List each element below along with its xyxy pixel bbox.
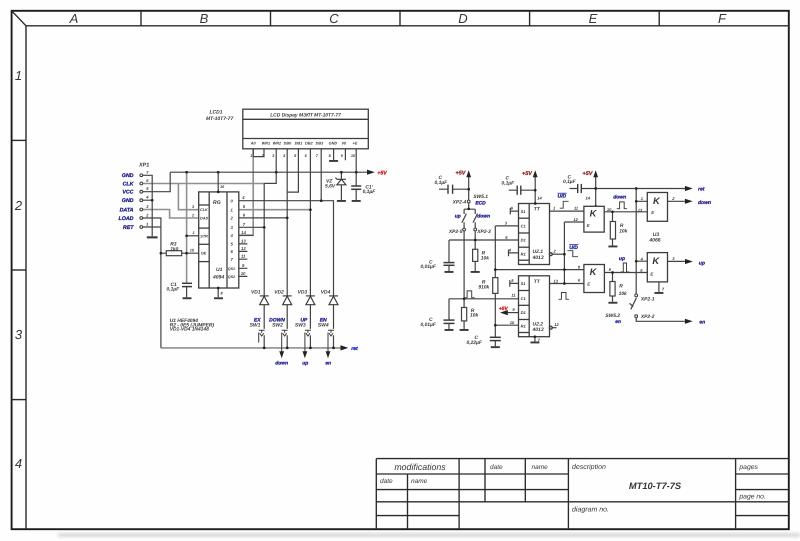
svg-text:D1: D1: [521, 310, 527, 315]
svg-text:DB1: DB1: [295, 142, 303, 146]
svg-text:0,01µF: 0,01µF: [421, 322, 437, 328]
svg-text:12: 12: [241, 246, 246, 251]
svg-text:E: E: [650, 271, 653, 276]
svg-text:11: 11: [241, 254, 246, 259]
svg-text:R: R: [482, 279, 486, 285]
svg-text:C: C: [329, 11, 339, 26]
svg-text:1: 1: [15, 68, 22, 83]
svg-text:E: E: [587, 223, 590, 228]
svg-text:U/D: U/D: [558, 194, 567, 200]
svg-text:WR2: WR2: [273, 142, 282, 146]
svg-text:R: R: [620, 223, 624, 229]
svg-text:down: down: [275, 361, 288, 367]
svg-text:SW4: SW4: [318, 323, 329, 329]
svg-text:3: 3: [15, 327, 23, 342]
svg-text:2: 2: [14, 198, 23, 213]
svg-text:R: R: [619, 283, 623, 289]
svg-text:12: 12: [554, 322, 559, 327]
svg-text:10: 10: [510, 320, 515, 325]
svg-text:0,1µF: 0,1µF: [502, 180, 516, 186]
svg-text:ECD: ECD: [475, 200, 486, 206]
svg-text:GND: GND: [122, 198, 134, 204]
svg-text:description: description: [572, 463, 606, 471]
svg-text:910k: 910k: [478, 284, 489, 290]
svg-text:OE: OE: [201, 252, 207, 256]
svg-text:1k0: 1k0: [170, 246, 178, 252]
svg-text:4013: 4013: [532, 327, 544, 333]
svg-text:+5V: +5V: [583, 171, 593, 177]
svg-text:+5V: +5V: [456, 171, 466, 177]
svg-text:date: date: [490, 464, 503, 471]
svg-text:DB0: DB0: [284, 142, 292, 146]
svg-text:en: en: [699, 320, 705, 326]
svg-text:VD3: VD3: [298, 289, 308, 295]
svg-text:XP2-3: XP2-3: [476, 229, 491, 235]
svg-text:ret: ret: [698, 187, 705, 193]
svg-text:4: 4: [15, 456, 22, 471]
svg-text:XP2-1: XP2-1: [640, 296, 655, 302]
svg-text:+5V: +5V: [377, 171, 387, 177]
svg-text:D1: D1: [521, 238, 527, 243]
svg-text:10k: 10k: [619, 291, 627, 297]
svg-text:RET: RET: [123, 225, 134, 231]
svg-text:14: 14: [586, 196, 591, 201]
svg-text:1: 1: [250, 154, 252, 158]
svg-text:4013: 4013: [532, 255, 544, 261]
svg-text:10k: 10k: [470, 313, 478, 319]
svg-text:up: up: [455, 214, 461, 219]
svg-text:A: A: [69, 11, 79, 26]
svg-text:CLK: CLK: [200, 208, 208, 212]
svg-text:VD4: VD4: [321, 289, 331, 295]
svg-text:0,1µF: 0,1µF: [563, 179, 577, 185]
svg-text:TT: TT: [534, 207, 541, 213]
svg-text:STR: STR: [200, 234, 208, 238]
svg-text:E: E: [589, 11, 598, 26]
svg-text:QS1: QS1: [228, 267, 235, 271]
svg-text:0,22µF: 0,22µF: [467, 340, 483, 346]
svg-text:en: en: [325, 362, 331, 367]
svg-text:GND: GND: [122, 173, 134, 179]
svg-text:D: D: [458, 11, 467, 26]
svg-text:DAD: DAD: [200, 217, 208, 221]
svg-text:R: R: [482, 251, 486, 257]
svg-text:DATA: DATA: [120, 207, 134, 213]
svg-text:pages: pages: [738, 464, 758, 471]
svg-text:up: up: [699, 261, 705, 267]
svg-text:10k: 10k: [481, 256, 489, 262]
svg-text:ret: ret: [351, 346, 358, 352]
svg-text:10k: 10k: [619, 228, 627, 234]
svg-text:LCD Dispay МЭЛТ MT-10T7-77: LCD Dispay МЭЛТ MT-10T7-77: [270, 112, 341, 118]
svg-text:MT-10T7-77: MT-10T7-77: [206, 116, 233, 122]
svg-text:down: down: [698, 200, 711, 206]
svg-text:GND: GND: [329, 142, 338, 146]
svg-text:+5V: +5V: [522, 171, 532, 177]
svg-text:date: date: [380, 478, 393, 485]
svg-text:name: name: [532, 464, 549, 471]
svg-text:down: down: [477, 213, 490, 219]
svg-text:diagram no.: diagram no.: [572, 506, 609, 514]
svg-text:LOAD: LOAD: [118, 216, 133, 222]
svg-text:0,1µF: 0,1µF: [363, 189, 377, 195]
svg-text:0,1µF: 0,1µF: [435, 180, 449, 186]
svg-text:C1: C1: [521, 224, 527, 229]
svg-text:4094: 4094: [212, 275, 224, 281]
svg-text:14: 14: [241, 230, 246, 235]
svg-text:SW3: SW3: [295, 323, 306, 329]
svg-text:SW5.1: SW5.1: [473, 194, 488, 200]
svg-text:VD2: VD2: [274, 289, 284, 295]
svg-text:13: 13: [638, 207, 643, 212]
svg-text:R1: R1: [521, 251, 527, 256]
svg-text:down: down: [613, 195, 626, 201]
svg-text:RG: RG: [213, 200, 221, 206]
svg-text:B: B: [200, 11, 209, 26]
svg-text:QS2: QS2: [228, 275, 235, 279]
svg-text:S1: S1: [521, 281, 527, 286]
svg-text:+E: +E: [353, 142, 358, 146]
svg-text:name: name: [411, 478, 428, 485]
svg-text:F: F: [718, 11, 727, 26]
svg-text:S1: S1: [521, 209, 527, 214]
svg-text:MT10-T7-7S: MT10-T7-7S: [629, 481, 682, 491]
svg-text:page no.: page no.: [738, 494, 766, 501]
svg-text:VD1-VD4 1N4148: VD1-VD4 1N4148: [170, 327, 209, 333]
svg-text:A0: A0: [250, 142, 257, 146]
svg-text:1: 1: [193, 231, 195, 235]
svg-text:E: E: [651, 210, 654, 215]
svg-text:XP2-5: XP2-5: [448, 229, 463, 235]
svg-text:CLK: CLK: [123, 181, 135, 187]
svg-text:13: 13: [554, 278, 559, 283]
svg-text:LCD1: LCD1: [210, 109, 223, 115]
svg-text:C1: C1: [521, 296, 527, 301]
svg-text:modifications: modifications: [394, 462, 446, 472]
svg-text:WR1: WR1: [262, 142, 270, 146]
svg-text:0,1µF: 0,1µF: [167, 287, 181, 293]
svg-text:SW1: SW1: [250, 323, 261, 329]
svg-text:DB2: DB2: [305, 142, 313, 146]
svg-text:0,01µF: 0,01µF: [421, 264, 437, 270]
svg-text:10: 10: [607, 207, 612, 212]
svg-text:SW5.2: SW5.2: [605, 313, 620, 319]
svg-text:14: 14: [537, 195, 542, 200]
svg-text:+5V: +5V: [499, 306, 509, 312]
svg-text:en: en: [615, 320, 621, 325]
svg-text:5,6V: 5,6V: [325, 183, 336, 189]
svg-text:R1: R1: [521, 324, 527, 329]
svg-text:SW2: SW2: [272, 323, 283, 329]
svg-text:XP2-4: XP2-4: [452, 200, 467, 206]
svg-text:XP1: XP1: [138, 163, 149, 169]
svg-text:up: up: [619, 256, 625, 262]
svg-text:XP2-2: XP2-2: [640, 314, 655, 320]
svg-text:VCC: VCC: [122, 190, 133, 196]
svg-text:4066: 4066: [648, 238, 660, 244]
svg-text:13: 13: [241, 238, 246, 243]
svg-text:10: 10: [241, 271, 246, 276]
svg-text:12: 12: [573, 217, 578, 222]
svg-text:TT: TT: [534, 279, 541, 285]
svg-text:E: E: [587, 282, 590, 287]
svg-text:up: up: [302, 362, 308, 367]
svg-text:DB3: DB3: [316, 142, 324, 146]
svg-text:U/D: U/D: [569, 245, 578, 251]
svg-text:U1: U1: [216, 267, 223, 273]
svg-text:VD1: VD1: [251, 289, 261, 295]
